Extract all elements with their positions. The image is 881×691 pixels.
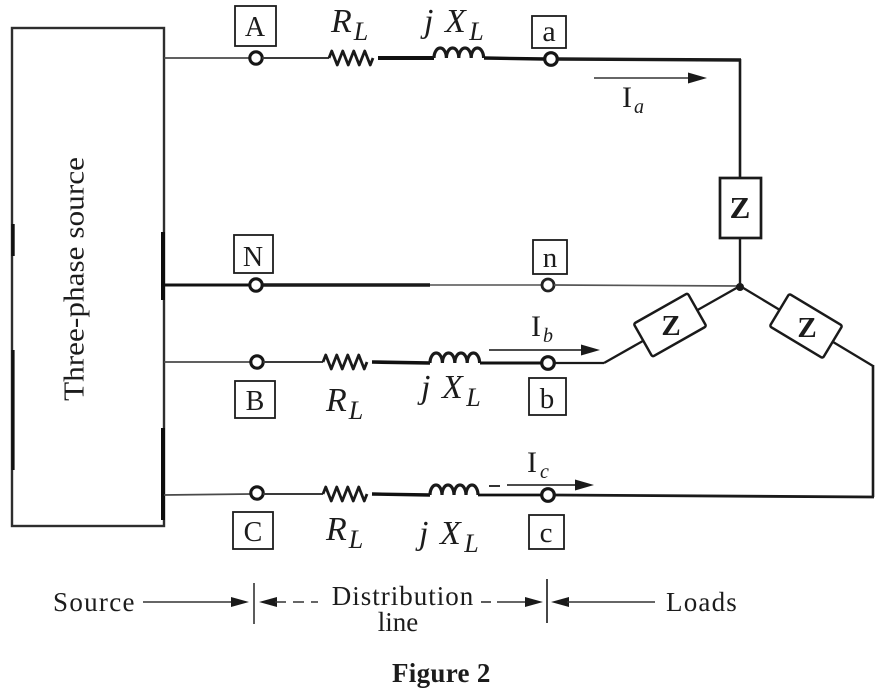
label box n — [533, 240, 567, 274]
label box A — [235, 6, 276, 46]
label box b — [529, 378, 566, 415]
wire N: node N to node n — [262, 283, 542, 286]
node n terminal — [542, 279, 554, 291]
wire Z1 to neutral node — [739, 237, 741, 288]
svg-text:n: n — [543, 242, 558, 274]
wire a to corner — [557, 59, 741, 60]
annotation: source right arrow — [143, 597, 249, 607]
svg-text:Z: Z — [730, 190, 751, 225]
label box c — [529, 515, 564, 549]
node C terminal — [251, 487, 263, 499]
wire A: inductor to node a — [484, 58, 545, 59]
value label RL phase B — [325, 382, 363, 425]
svg-text:c: c — [540, 517, 553, 549]
wire A: node A to resistor — [262, 57, 329, 59]
resistor RL phase B — [323, 355, 367, 369]
svg-text:C: C — [244, 517, 263, 548]
wire b to Z2 diagonal — [554, 286, 740, 363]
svg-text:RL: RL — [325, 511, 363, 554]
svg-text:Figure 2: Figure 2 — [392, 658, 491, 688]
wire c to load return — [554, 495, 874, 497]
current arrow Ia — [594, 73, 707, 119]
svg-text:Source: Source — [53, 587, 136, 617]
annotation: Loads label — [666, 587, 738, 617]
current arrow Ib — [489, 310, 600, 356]
svg-text:j XL: j XL — [417, 369, 482, 412]
resistor RL phase A — [329, 51, 373, 65]
value label RL phase C — [325, 511, 363, 554]
svg-text:RL: RL — [325, 382, 363, 425]
caption Figure 2 — [392, 658, 491, 688]
svg-text:Z: Z — [797, 312, 816, 344]
wire star point to Z3 diagonal — [740, 286, 873, 497]
value label jXL phase C — [415, 515, 480, 558]
impedance Z2 — [634, 293, 707, 357]
annotation: distribution left arrow — [259, 597, 318, 607]
svg-text:j XL: j XL — [415, 515, 480, 558]
wire N: source to node N — [164, 284, 250, 287]
inductor jXL phase C — [430, 485, 478, 495]
node B terminal — [251, 356, 263, 368]
wire C: resistor to inductor — [372, 494, 430, 495]
svg-text:N: N — [243, 242, 263, 273]
wire B: inductor to node b — [480, 362, 542, 365]
wire B: resistor to inductor — [372, 362, 430, 363]
node c terminal — [542, 489, 555, 502]
node a terminal — [545, 53, 558, 66]
annotation: tick 1 — [253, 583, 255, 624]
impedance Z3 — [770, 294, 843, 359]
value label jXL phase B — [417, 369, 482, 412]
svg-text:Ib: Ib — [531, 310, 553, 347]
node A terminal — [250, 52, 262, 64]
svg-text:Loads: Loads — [666, 587, 738, 617]
resistor RL phase C — [323, 487, 367, 501]
svg-text:Three-phase source: Three-phase source — [59, 157, 90, 401]
label box N — [234, 235, 273, 273]
svg-text:a: a — [542, 15, 555, 48]
wire C: source to node C — [164, 494, 251, 495]
inductor jXL phase B — [430, 353, 480, 363]
wire n to star point — [554, 285, 740, 286]
impedance Z1 — [720, 178, 761, 238]
svg-text:RL: RL — [330, 3, 368, 46]
label box a — [532, 15, 566, 48]
svg-text:B: B — [246, 386, 265, 417]
annotation: Distribution line label — [332, 581, 475, 637]
wire corner down to Z1 — [739, 59, 742, 179]
label box B — [235, 381, 275, 418]
node N terminal — [250, 279, 262, 291]
node b terminal — [542, 357, 555, 370]
annotation: tick 2 — [546, 579, 548, 623]
wire C: node C to resistor — [263, 493, 323, 495]
wire A: source to node A — [164, 57, 250, 59]
inductor jXL phase A — [434, 48, 484, 58]
svg-text:Ic: Ic — [527, 446, 549, 483]
value label jXL phase A — [420, 3, 485, 46]
svg-text:b: b — [540, 383, 555, 415]
label box C — [233, 512, 273, 549]
svg-text:line: line — [378, 607, 419, 637]
wire C: inductor to node c — [478, 494, 542, 497]
wire B: node B to resistor — [263, 361, 323, 363]
current arrow Ic — [489, 446, 594, 491]
svg-text:j XL: j XL — [420, 3, 485, 46]
svg-text:Z: Z — [661, 310, 680, 342]
annotation: distribution right arrow — [481, 597, 543, 607]
annotation: Source label — [53, 587, 136, 617]
wire A: resistor to inductor — [378, 56, 434, 60]
three-phase source box — [12, 28, 164, 526]
star point junction — [736, 283, 744, 291]
svg-text:Ia: Ia — [622, 81, 644, 118]
value label RL phase A — [330, 3, 368, 46]
wire B: source to node B — [164, 361, 251, 363]
svg-text:A: A — [245, 12, 266, 43]
annotation: loads left arrow — [551, 597, 655, 607]
